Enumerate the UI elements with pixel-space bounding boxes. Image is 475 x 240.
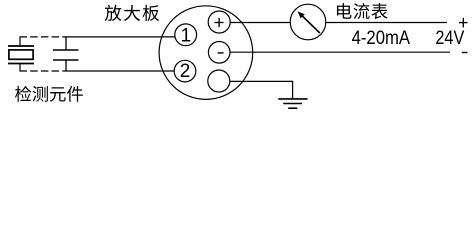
ground [278, 99, 307, 108]
wire: case terminal to ground [230, 81, 293, 98]
supply - polarity mark [462, 52, 468, 54]
svg-text:4-20mA: 4-20mA [352, 28, 411, 49]
wire: capacitor top to amplifier pin 1 [66, 36, 175, 38]
capacitor C1 [53, 37, 79, 71]
terminal case (unlabeled) [208, 70, 230, 92]
dashed wire: crystal top to capacitor top (node A) [20, 36, 67, 38]
terminal + (output positive) [208, 11, 230, 33]
dashed wire: crystal bottom to capacitor bottom (node B) [20, 70, 67, 72]
ammeter M1 [290, 4, 326, 40]
terminal - (output negative) [208, 42, 230, 64]
supply + polarity mark [459, 18, 468, 28]
label 放大板 (amplifier board) [105, 5, 159, 21]
amplifier board U1 (放大板) outline [159, 6, 253, 100]
terminal 2 [174, 60, 196, 82]
piezoelectric detection element B1 (crystal) [8, 37, 34, 71]
svg-text:24V: 24V [435, 28, 464, 49]
wire: - terminal to supply return (4-20mA loop) [230, 51, 450, 53]
label 电流表 (ammeter) [337, 3, 388, 19]
label 检测元件 (detection element) [15, 86, 83, 102]
terminal 1 [175, 24, 197, 46]
wire: capacitor bottom to amplifier pin 2 [66, 70, 174, 72]
svg-text:1: 1 [181, 25, 192, 46]
svg-text:2: 2 [180, 61, 191, 82]
wire: ammeter to supply + [326, 22, 447, 24]
wire: + terminal to ammeter [230, 22, 290, 24]
